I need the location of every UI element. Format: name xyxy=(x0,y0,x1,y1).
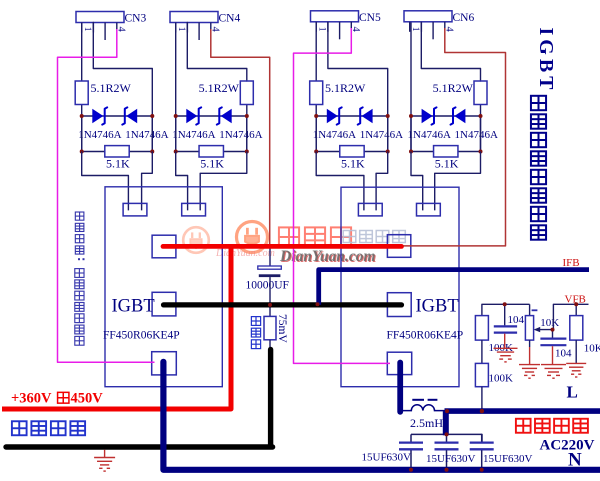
wire C(CN5) resistor to nodes xyxy=(315,105,317,152)
svg-text:100K: 100K xyxy=(489,373,514,385)
label 5.1R2W C(CN5) xyxy=(325,81,366,95)
dot on cap bus xyxy=(445,432,449,436)
potentiometer top tick xyxy=(532,309,538,311)
wire D(CN6) pin1 to left node xyxy=(410,23,412,152)
svg-text:1N4746A: 1N4746A xyxy=(360,129,403,141)
connector CN3 pin number 4 xyxy=(115,27,126,33)
wire A(CN3) zener row xyxy=(82,115,153,117)
wire B(CN4) right node to pad xyxy=(200,152,247,211)
resistor 100K #1 xyxy=(475,316,488,341)
wire D(CN6) 5.1K row xyxy=(411,151,481,153)
label 5.1R2W B(CN4) xyxy=(199,81,240,95)
svg-text:2.5mH: 2.5mH xyxy=(410,416,443,430)
connector CN5 label xyxy=(359,12,381,24)
svg-text:CN5: CN5 xyxy=(359,12,381,24)
module U2 emitter pad xyxy=(387,352,411,374)
wire B(CN4) zener row xyxy=(176,115,247,117)
wire D(CN6) pin2 corner to resistor xyxy=(421,23,480,82)
wire D(CN6) left node to pad xyxy=(411,152,423,211)
svg-text:CN3: CN3 xyxy=(125,13,147,25)
zener diode 1N4746A B(CN4) left xyxy=(186,107,201,124)
wire DC+ red bus xyxy=(163,244,402,249)
svg-text:5.1R2W: 5.1R2W xyxy=(91,81,132,95)
connector CN5 pins xyxy=(316,22,351,40)
svg-text:5.1K: 5.1K xyxy=(106,157,130,171)
zener diode 1N4746A D(CN6) right xyxy=(451,107,466,124)
label FF450R06KE4P U2 xyxy=(387,330,464,342)
wire D(CN6) right node to pad xyxy=(435,152,481,211)
label 1N4746A D(CN6) left xyxy=(408,129,451,141)
svg-text:10K: 10K xyxy=(584,343,600,355)
label 10K potentiometer xyxy=(540,317,559,329)
wire 100K #2 to L line xyxy=(481,387,483,411)
resistor 5.1K C(CN5) xyxy=(340,146,364,157)
wire B(CN4) pin1 to left node xyxy=(175,23,177,152)
ground symbol on DC- input xyxy=(94,450,115,471)
wire A(CN3) resistor to nodes xyxy=(81,105,83,152)
zener diode 1N4746A A(CN3) left xyxy=(92,107,107,124)
module gate pad C(CN5) xyxy=(358,203,382,216)
wire DC- black input xyxy=(6,444,273,449)
resistor 5.1R2W D(CN6) xyxy=(474,81,487,105)
wire D(CN6) left node vertical xyxy=(410,116,412,152)
connector CN3 pins xyxy=(82,23,117,41)
module gate pad A(CN3) xyxy=(123,203,147,216)
resistor 5.1K D(CN6) xyxy=(434,146,458,157)
node dots B(CN4) xyxy=(174,114,249,154)
wire 10K #3 to ground xyxy=(575,340,577,363)
capacitor 104 #1 xyxy=(494,304,517,348)
ground #3 under cap 104 #2 xyxy=(541,365,566,379)
svg-text:75mV: 75mV xyxy=(276,314,288,343)
connector CN6 pin number 1 xyxy=(410,27,420,32)
label 5.1R2W A(CN3) xyxy=(91,81,132,95)
zener diode 1N4746A D(CN6) left xyxy=(422,107,437,124)
zener diode 1N4746A B(CN4) right xyxy=(217,107,232,124)
label 1N4746A A(CN3) right xyxy=(125,129,168,141)
svg-text:CN4: CN4 xyxy=(219,13,241,25)
connector CN4 pins xyxy=(176,23,211,41)
svg-text:10K: 10K xyxy=(540,317,559,329)
wire pot to ground xyxy=(529,347,531,365)
label 2.5mH xyxy=(410,416,443,430)
connector CN4 body xyxy=(170,12,218,23)
svg-text:FF450R06KE4P: FF450R06KE4P xyxy=(387,330,464,342)
svg-text:1N4746A: 1N4746A xyxy=(172,129,215,141)
svg-text:IGBT: IGBT xyxy=(535,28,557,94)
IGBT module U2 box FF450R06KE4P right xyxy=(341,187,459,387)
wire A(CN3) left node to pad xyxy=(82,152,129,211)
resistor 5.1K A(CN3) xyxy=(105,146,129,157)
svg-text:N: N xyxy=(568,450,582,471)
wire navy L to filter caps xyxy=(443,411,449,435)
wire C(CN5) right node to pad xyxy=(376,152,388,211)
resistor 5.1R2W A(CN3) xyxy=(75,81,88,105)
wire B(CN4) 5.1K row xyxy=(176,151,247,153)
module U1 collector pad xyxy=(152,235,176,258)
wire magenta CN3 pin4 to U1 emitter xyxy=(58,29,155,362)
module U2 collector pad xyxy=(387,235,410,258)
wire C(CN5) zener row xyxy=(316,115,388,117)
svg-text:15UF630V: 15UF630V xyxy=(362,451,412,463)
label 15UF630V #2 xyxy=(426,453,476,465)
dots black bus junctions xyxy=(268,302,320,307)
IGBT module U1 box FF450R06KE4P left xyxy=(105,187,222,387)
capacitor 15UF630V #1 xyxy=(399,434,423,467)
label 5.1K C(CN5) xyxy=(341,157,365,171)
label 15UF630V #1 xyxy=(362,451,412,463)
label 5.1K A(CN3) xyxy=(106,157,130,171)
connector CN6 body xyxy=(404,11,452,22)
svg-text:IGBT: IGBT xyxy=(112,297,155,317)
module gate pad B(CN4) xyxy=(182,203,206,216)
dots feedback network xyxy=(503,302,579,331)
connector CN5 pin number 4 xyxy=(350,27,361,33)
ground #4 under 10K xyxy=(566,363,586,377)
label 10000UF xyxy=(246,280,289,292)
svg-text:1: 1 xyxy=(317,27,327,32)
wire pot top stub xyxy=(529,304,531,315)
label 1N4746A C(CN5) left xyxy=(313,129,356,141)
connector CN3 pin number 1 xyxy=(82,27,92,32)
svg-text:1N4746A: 1N4746A xyxy=(455,129,498,141)
node dots D(CN6) xyxy=(409,114,483,154)
label 75mV vertical xyxy=(276,314,288,343)
module U1 gate pad (IGBT) xyxy=(152,292,176,316)
svg-text:5.1R2W: 5.1R2W xyxy=(325,81,366,95)
wire C(CN5) left node vertical xyxy=(315,116,317,152)
wire C(CN5) 5.1K row xyxy=(316,151,388,153)
wire 100K chain top corner xyxy=(482,304,530,315)
label +360V to 450V xyxy=(11,391,103,407)
potentiometer wiper arrow xyxy=(534,327,553,332)
wire shunt to thick black xyxy=(269,340,271,350)
label zhiliu shuru (DC input) xyxy=(12,421,85,435)
inductor 2.5mH xyxy=(403,400,446,411)
wire filter caps top bus xyxy=(411,433,482,435)
wire A(CN3) left node vertical xyxy=(81,116,83,152)
label VFB xyxy=(565,294,586,306)
connector CN4 pin number 4 xyxy=(209,27,220,33)
watermark DianYuan logos and text xyxy=(183,221,405,266)
svg-text:104: 104 xyxy=(555,347,572,359)
wire DC+ red input riser xyxy=(2,246,231,409)
label FF450R06KE4P U1 xyxy=(103,330,180,342)
svg-text:DianYuan.com: DianYuan.com xyxy=(215,248,275,259)
svg-text:1N4746A: 1N4746A xyxy=(408,129,451,141)
wire between 100K resistors xyxy=(481,340,483,363)
label 1N4746A B(CN4) right xyxy=(219,129,262,141)
capacitor 104 #2 xyxy=(540,330,566,365)
potentiometer 10K body xyxy=(525,316,533,341)
resistor 5.1R2W B(CN4) xyxy=(240,81,253,105)
capacitor 15UF630V #2 xyxy=(435,434,459,467)
wire cap bus right corner xyxy=(481,434,483,441)
wire navy L output xyxy=(445,408,600,414)
label 104 #1 xyxy=(508,314,525,326)
node dots C(CN5) xyxy=(314,114,390,154)
wire VFB line xyxy=(553,304,588,329)
label IFB xyxy=(563,257,580,269)
wire red bus to 10000UF xyxy=(269,246,271,266)
zener diode 1N4746A C(CN5) right xyxy=(358,107,373,124)
label IGBT drive output circuit vertical title xyxy=(531,28,557,240)
svg-text:1N4746A: 1N4746A xyxy=(219,129,262,141)
wire C(CN5) pin2 corner to right node xyxy=(328,23,388,152)
dots on L line xyxy=(445,409,484,413)
connector CN6 pins xyxy=(410,22,445,40)
shunt resistor box xyxy=(264,316,276,339)
label 1N4746A C(CN5) right xyxy=(360,129,403,141)
label 5.1R2W D(CN6) xyxy=(433,81,474,95)
label jiaoliu shuchu (AC output) xyxy=(516,419,588,433)
label 1N4746A D(CN6) right xyxy=(455,129,498,141)
wire red CN4 pin4 to DC+ bus xyxy=(211,29,270,245)
label 10K #3 xyxy=(584,343,600,355)
resistor 10K #3 xyxy=(570,316,583,341)
wire D(CN6) resistor to node xyxy=(480,105,482,152)
connector CN3 label xyxy=(125,13,147,25)
wire black shunt to DC- xyxy=(268,350,273,447)
label 1N4746A A(CN3) left xyxy=(78,129,121,141)
connector CN6 label xyxy=(453,12,475,24)
svg-text:IFB: IFB xyxy=(563,257,580,269)
wire black bus to shunt xyxy=(269,305,271,317)
svg-text:5.1K: 5.1K xyxy=(435,157,459,171)
resistor 100K #2 xyxy=(475,363,488,386)
wire B(CN4) left node vertical xyxy=(175,116,177,152)
label AC220V xyxy=(540,438,595,454)
module U2 gate pad (IGBT) xyxy=(387,293,411,317)
label L xyxy=(567,383,578,402)
wire navy U2 emitter to inductor xyxy=(397,363,403,412)
wire A(CN3) pin1 to resistor xyxy=(81,23,83,82)
svg-text:1: 1 xyxy=(82,27,92,32)
wire B(CN4) pin2 corner to resistor xyxy=(187,23,247,82)
wire C(CN5) right node vertical xyxy=(387,116,389,152)
wire VFB to 10K xyxy=(575,304,577,315)
label 15UF630V #3 xyxy=(483,453,533,465)
wire pot bottom stub xyxy=(529,340,531,347)
wire A(CN3) right node to pad xyxy=(142,152,153,211)
wire navy U1 emitter to N xyxy=(163,362,600,470)
label taobao shop vertical text xyxy=(75,212,85,345)
label 5.1K B(CN4) xyxy=(200,157,224,171)
label 100K #1 xyxy=(489,342,514,354)
wire magenta CN5 pin4 to U2 emitter xyxy=(294,28,391,363)
svg-text:CN6: CN6 xyxy=(453,12,475,24)
connector CN4 label xyxy=(219,13,241,25)
node dots A(CN3) xyxy=(80,114,155,154)
label 104 #2 xyxy=(555,347,572,359)
label 5.1K D(CN6) xyxy=(435,157,459,171)
wire red CN6 pin4 to U2 collector xyxy=(403,28,506,246)
ground #2 under potentiometer xyxy=(519,365,540,379)
wire A(CN3) right node vertical xyxy=(151,116,153,152)
zener diode 1N4746A A(CN3) right xyxy=(122,107,137,124)
connector CN6 pin number 4 xyxy=(443,27,454,33)
label 100K #2 xyxy=(489,373,514,385)
wire C(CN5) left node to pad xyxy=(316,152,364,211)
wire 10000UF to black bus xyxy=(269,277,271,305)
svg-text:5.1R2W: 5.1R2W xyxy=(199,81,240,95)
label 1N4746A B(CN4) left xyxy=(172,129,215,141)
label IGBT U2 xyxy=(416,297,459,317)
svg-text:1N4746A: 1N4746A xyxy=(78,129,121,141)
svg-text:15UF630V: 15UF630V xyxy=(483,453,533,465)
capacitor 15UF630V #3 xyxy=(470,434,494,467)
resistor 5.1R2W C(CN5) xyxy=(310,81,323,105)
connector CN4 pin number 1 xyxy=(176,27,186,32)
wire D(CN6) zener row xyxy=(411,115,481,117)
connector CN5 body xyxy=(311,11,359,22)
wire D(CN6) right node vertical xyxy=(480,116,482,152)
svg-text:1N4746A: 1N4746A xyxy=(313,129,356,141)
zener diode 1N4746A C(CN5) left xyxy=(327,107,342,124)
svg-text:L: L xyxy=(567,383,578,402)
svg-text:5.1K: 5.1K xyxy=(341,157,365,171)
svg-text:FF450R06KE4P: FF450R06KE4P xyxy=(103,330,180,342)
wire B(CN4) left node to pad xyxy=(176,152,188,211)
connector CN5 pin number 1 xyxy=(317,27,327,32)
resistor 5.1K B(CN4) xyxy=(199,146,223,157)
module U1 emitter pad xyxy=(152,352,177,375)
svg-text:1: 1 xyxy=(176,27,186,32)
wire A(CN3) pin2 corner to right node xyxy=(93,23,152,152)
svg-text:10000UF: 10000UF xyxy=(246,280,289,292)
svg-text:15UF630V: 15UF630V xyxy=(426,453,476,465)
svg-text:104: 104 xyxy=(508,314,525,326)
svg-text:5.1R2W: 5.1R2W xyxy=(433,81,474,95)
dots on N line xyxy=(409,468,484,472)
label fenliuqi (shunt) vertical xyxy=(251,317,260,349)
svg-text:IGBT: IGBT xyxy=(416,297,459,317)
wire A(CN3) 5.1K row xyxy=(82,151,153,153)
svg-text:5.1K: 5.1K xyxy=(200,157,224,171)
wire B(CN4) right node vertical xyxy=(246,116,248,152)
ground #1 under cap 104 xyxy=(494,348,518,362)
wire black gate bus xyxy=(164,302,402,307)
label IGBT U1 xyxy=(112,297,155,317)
svg-text:1N4746A: 1N4746A xyxy=(125,129,168,141)
label N xyxy=(568,450,582,471)
module gate pad D(CN6) xyxy=(417,203,441,216)
capacitor 10000UF xyxy=(258,266,282,277)
wire C(CN5) pin1 to resistor xyxy=(315,23,317,82)
wire IFB xyxy=(319,270,589,305)
wire B(CN4) resistor to node xyxy=(246,105,248,152)
svg-text:450V: 450V xyxy=(71,391,104,407)
svg-text:+360V: +360V xyxy=(11,391,52,407)
connector CN3 body xyxy=(76,12,124,23)
